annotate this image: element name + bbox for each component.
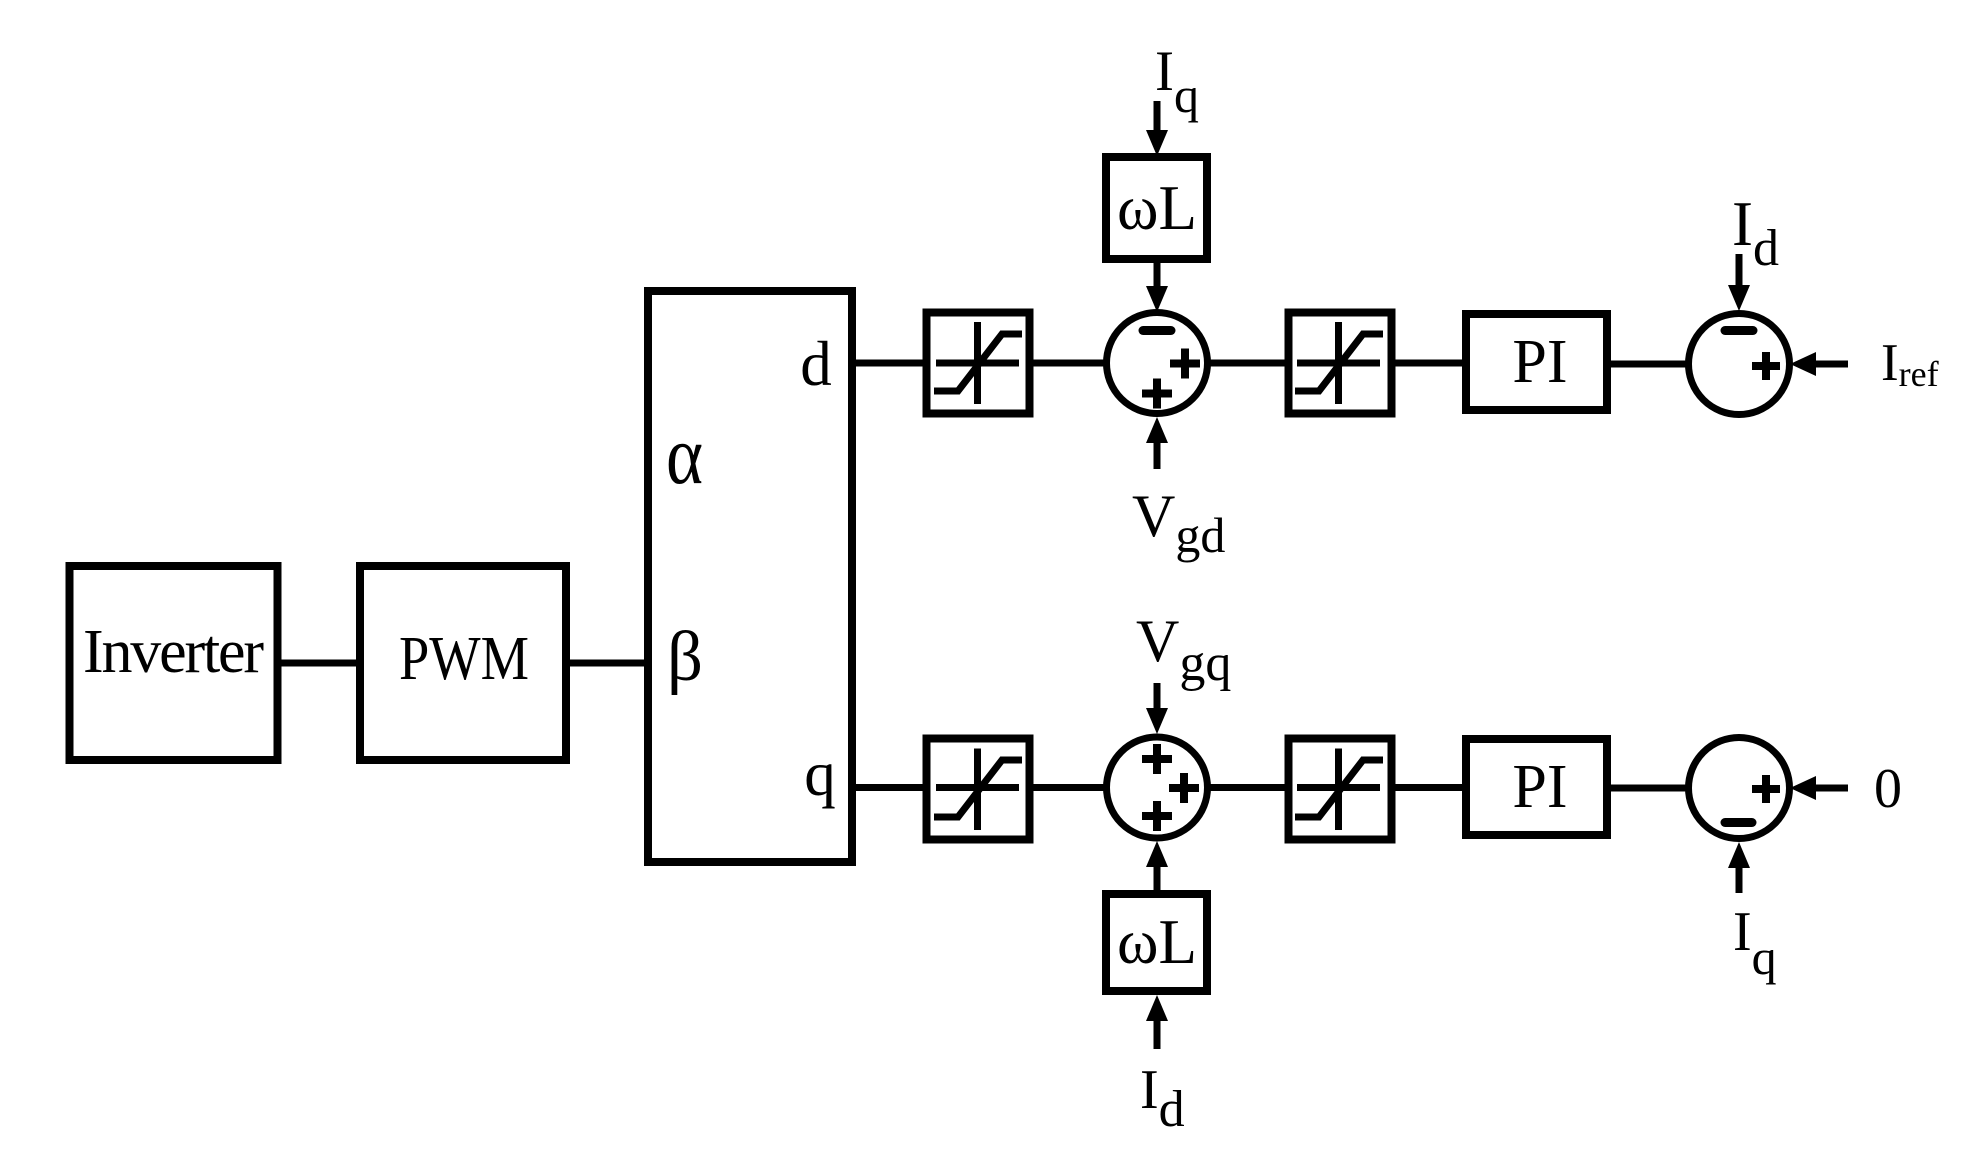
minus sign top bbox=[1725, 326, 1753, 335]
wire limiter 3 to summing junction 3 bbox=[1028, 784, 1108, 791]
input Iq arrow into summing junction 4 bbox=[1728, 842, 1750, 893]
plus sign bottom bbox=[1142, 390, 1172, 398]
wire q output to limiter 3 bbox=[852, 784, 927, 791]
wire limiter 4 to PI 2 bbox=[1388, 784, 1466, 791]
svg-text:PI: PI bbox=[1512, 753, 1567, 821]
svg-text:β: β bbox=[667, 618, 703, 696]
summing junction 3 bbox=[1107, 737, 1208, 838]
minus sign bottom bbox=[1725, 818, 1752, 827]
input Iq arrow into omega-L 1 bbox=[1146, 101, 1168, 156]
minus sign top bbox=[1143, 326, 1171, 335]
wire d output to limiter 1 bbox=[852, 360, 927, 367]
wire PI 2 to summing junction 4 bbox=[1607, 785, 1692, 792]
svg-text:PWM: PWM bbox=[399, 625, 529, 693]
plus sign right bbox=[1169, 784, 1199, 792]
svg-text:0: 0 bbox=[1874, 758, 1902, 820]
svg-text:ωL: ωL bbox=[1117, 173, 1197, 243]
wire PI 1 to summing junction 2 bbox=[1607, 361, 1692, 368]
transform block alpha-beta / dq bbox=[648, 291, 852, 862]
wire limiter 2 to PI 1 bbox=[1388, 360, 1466, 367]
svg-text:Inverter: Inverter bbox=[83, 618, 264, 686]
block PI 2 bbox=[1466, 739, 1607, 835]
input Vgq arrow into summing junction 3 bbox=[1146, 683, 1168, 734]
plus sign top bbox=[1142, 755, 1172, 763]
svg-text:q: q bbox=[804, 739, 836, 809]
limiter block 2 (saturation) bbox=[1289, 313, 1392, 414]
svg-text:PI: PI bbox=[1512, 328, 1567, 396]
input Iref arrow bbox=[1790, 352, 1848, 376]
svg-text:d: d bbox=[800, 329, 832, 399]
wire summing junction 1 to limiter 2 bbox=[1206, 360, 1288, 367]
wire omega-L 1 to summing junction 1 bbox=[1146, 259, 1168, 312]
block Inverter bbox=[70, 566, 278, 760]
summing junction 2 bbox=[1689, 314, 1790, 415]
svg-text:ωL: ωL bbox=[1117, 907, 1197, 977]
limiter block 3 (saturation) bbox=[927, 739, 1030, 840]
input Vgd arrow into summing junction 1 bbox=[1146, 417, 1168, 469]
wire PWM to transform block bbox=[566, 660, 652, 667]
block PI 1 bbox=[1466, 314, 1607, 410]
limiter block 4 (saturation) bbox=[1289, 739, 1392, 840]
limiter block 1 (saturation) bbox=[927, 313, 1030, 414]
summing junction 4 bbox=[1689, 738, 1790, 839]
summing junction 1 bbox=[1107, 313, 1208, 414]
input 0 arrow bbox=[1790, 776, 1848, 800]
input Id arrow into summing junction 2 bbox=[1728, 254, 1750, 311]
block omega-L 2 bbox=[1106, 894, 1207, 991]
wire omega-L 2 to summing junction 3 bbox=[1146, 841, 1168, 894]
plus sign right bbox=[1752, 362, 1780, 370]
plus sign right bbox=[1752, 785, 1780, 793]
plus sign bottom bbox=[1142, 812, 1172, 820]
block PWM bbox=[360, 566, 566, 760]
input Id arrow into omega-L 2 bbox=[1146, 995, 1168, 1049]
block omega-L 1 bbox=[1106, 157, 1207, 259]
wire summing junction 3 to limiter 4 bbox=[1206, 784, 1288, 791]
wire Inverter to PWM bbox=[278, 660, 360, 667]
plus sign right bbox=[1170, 360, 1200, 368]
wire limiter 1 to summing junction 1 bbox=[1028, 360, 1108, 367]
svg-text:α: α bbox=[666, 409, 703, 502]
